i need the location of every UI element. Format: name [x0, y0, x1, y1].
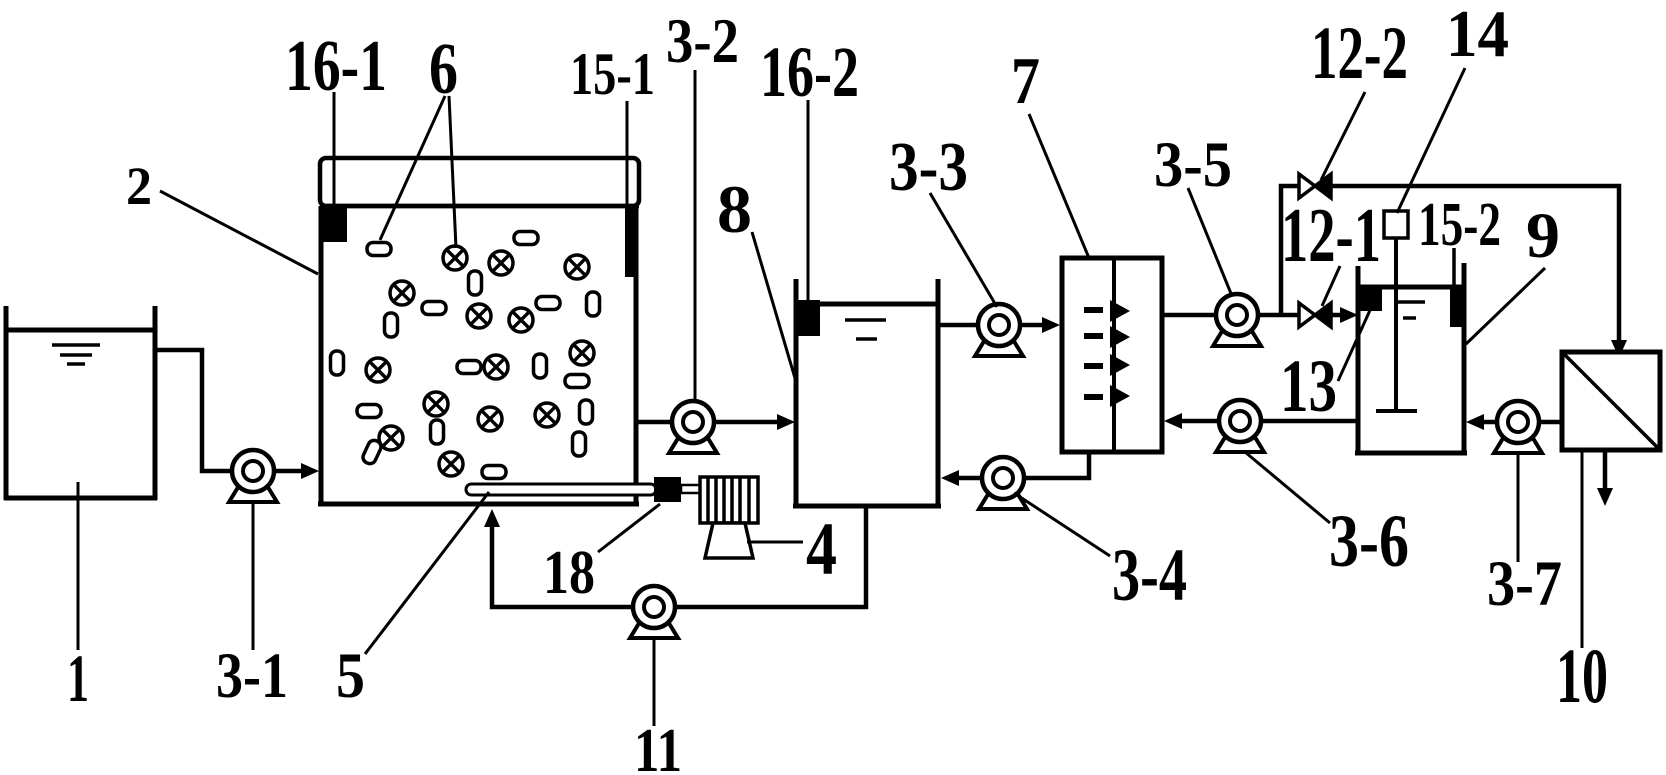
svg-text:6: 6	[429, 28, 458, 109]
tank 8 water level marks	[845, 320, 886, 339]
svg-text:3-7: 3-7	[1487, 548, 1562, 620]
wire tank 9 to pump 3-6	[1262, 419, 1358, 424]
svg-text:9: 9	[1526, 200, 1560, 272]
probe 15-2	[1452, 248, 1456, 290]
pipe cell 7 bottom to pump 3-4	[1026, 452, 1089, 478]
svg-text:1: 1	[67, 640, 89, 716]
pump 3-5	[1213, 294, 1261, 346]
tank 9 water level marks	[1398, 302, 1425, 318]
label 16-1 pointer	[333, 92, 336, 205]
label 14 pointer	[1397, 68, 1465, 213]
svg-text:3-1: 3-1	[216, 640, 288, 712]
label 7 pointer	[1029, 114, 1089, 258]
label 11 pointer	[653, 640, 656, 726]
stirrer 13	[1376, 238, 1417, 411]
cell 7 electrode teeth	[1110, 300, 1130, 407]
label 18 pointer	[598, 504, 660, 552]
wire tank8 to pump 3-3	[938, 323, 979, 328]
cell 7 electrode dashes	[1084, 310, 1103, 397]
valve 12-2	[1299, 174, 1331, 198]
svg-text:8: 8	[717, 171, 752, 247]
wire tank1 to pump 3-1	[155, 350, 234, 471]
wire pump 11 to tank 2 bottom with up arrow	[492, 524, 632, 607]
svg-text:18: 18	[543, 539, 595, 607]
wire pump 3-7 to tank 9 with arrow	[1480, 420, 1497, 425]
wire pump 3-4 to tank 8 with arrow	[955, 476, 982, 481]
label 12-1 pointer	[1322, 266, 1340, 306]
wire cell 7 to pump 3-5	[1162, 313, 1217, 318]
shaft from coupling to blower	[681, 485, 702, 493]
aeration bubbles in tank 2	[366, 246, 594, 476]
cell 7 divider electrode	[1112, 258, 1116, 452]
svg-text:3-4: 3-4	[1112, 534, 1187, 617]
label 1 pointer	[77, 482, 80, 650]
pump 3-3	[975, 304, 1023, 356]
label 3-1 pointer	[252, 503, 255, 650]
svg-text:5: 5	[336, 640, 365, 712]
pump 11	[630, 586, 678, 638]
label 3-7 pointer	[1517, 453, 1520, 562]
tank 9 (dosing tank)	[1355, 263, 1467, 455]
probe 15-1 (black bar)	[625, 206, 636, 277]
svg-text:3-6: 3-6	[1329, 500, 1409, 583]
svg-text:3-2: 3-2	[666, 5, 739, 76]
electrolytic cell 7	[1062, 258, 1162, 452]
label 3-5 pointer	[1188, 188, 1232, 296]
bypass riser wire	[1281, 186, 1301, 315]
wire pump 3-2 to tank 8 with arrow	[714, 420, 780, 425]
blower 4 base	[705, 523, 753, 558]
tank 1 water level marks	[52, 345, 100, 364]
svg-text:15-2: 15-2	[1418, 191, 1501, 259]
unit 10 diagonal	[1562, 352, 1660, 450]
tank 2 body (biological reactor)	[318, 206, 639, 504]
svg-text:14: 14	[1446, 0, 1509, 71]
svg-text:11: 11	[634, 717, 682, 775]
label 13 pointer	[1338, 308, 1371, 381]
label 3-4 pointer	[1014, 493, 1110, 556]
tank 9 inlet port (black)	[1358, 287, 1382, 311]
label 8 pointer	[752, 232, 797, 385]
tank 1 (raw water tank)	[4, 306, 157, 500]
heater tube 5	[466, 484, 656, 495]
wire pump 3-5 to valve 12-1	[1258, 313, 1301, 318]
svg-text:16-1: 16-1	[285, 25, 387, 106]
position sensor 14	[1384, 211, 1408, 238]
svg-text:3-5: 3-5	[1154, 129, 1232, 201]
wire pump 3-3 to cell 7 with arrow	[1020, 323, 1046, 328]
svg-text:10: 10	[1556, 632, 1608, 719]
svg-text:13: 13	[1280, 345, 1337, 428]
svg-text:16-2: 16-2	[760, 32, 859, 112]
label 15-1 pointer	[626, 101, 629, 206]
label 4 pointer	[747, 541, 803, 544]
pump 3-1	[229, 450, 277, 502]
loop pipe tank8 bottom to pump 11	[676, 506, 866, 607]
label 3-2 pointer	[694, 70, 697, 400]
svg-text:4: 4	[806, 508, 837, 591]
label 16-2 pointer	[807, 100, 810, 300]
wire unit 10 to pump 3-7	[1540, 420, 1562, 425]
unit 10 outlet arrow	[1603, 450, 1608, 492]
label 3-6 pointer	[1245, 452, 1330, 523]
label 5 pointer	[365, 492, 489, 654]
unit 10 (membrane unit)	[1562, 352, 1660, 450]
label 3-3 pointer	[930, 193, 997, 307]
tank 2 inlet port (black)	[321, 205, 347, 242]
svg-text:3-3: 3-3	[889, 129, 968, 206]
label 12-2 pointer	[1321, 92, 1365, 180]
valve 12-1	[1299, 303, 1331, 327]
label 9 pointer	[1466, 268, 1545, 344]
label 2 pointer	[160, 191, 318, 274]
label 10 pointer	[1581, 450, 1584, 648]
svg-text:2: 2	[126, 156, 152, 216]
svg-text:12-1: 12-1	[1281, 192, 1381, 278]
pump 3-6	[1216, 400, 1264, 452]
tank 2 lid	[320, 158, 639, 206]
tank 8 (intermediate tank)	[793, 279, 941, 506]
coupling 18 (black square)	[654, 477, 681, 502]
svg-text:15-1: 15-1	[570, 41, 655, 107]
wire pump 3-1 to tank 2 with arrow	[274, 469, 303, 474]
pump 3-7	[1494, 401, 1542, 453]
blower 4 striped box	[700, 477, 758, 523]
pump 3-4	[979, 457, 1027, 509]
wire valve 12-1 to tank 9 with arrow	[1331, 313, 1344, 318]
svg-text:7: 7	[1011, 44, 1040, 118]
biofilm carriers in tank 2	[331, 232, 600, 479]
svg-text:12-2: 12-2	[1311, 12, 1408, 95]
wire pump 3-6 to cell 7 with arrow	[1178, 419, 1219, 424]
tank 8 inlet port (black)	[797, 300, 820, 336]
bypass wire to unit 10 with down arrow	[1331, 186, 1619, 344]
pump 3-2	[669, 401, 717, 453]
label 6 pointers	[380, 96, 456, 248]
wire tank2 to pump 3-2	[636, 420, 674, 425]
